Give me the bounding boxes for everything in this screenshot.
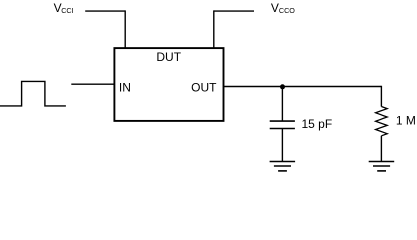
junction node xyxy=(280,84,285,89)
svg-text:CCI: CCI xyxy=(61,6,73,15)
wire VCCO horizontal xyxy=(214,10,254,12)
svg-text:15 pF: 15 pF xyxy=(302,117,333,131)
wire resistor to ground xyxy=(380,136,382,162)
wire OUT xyxy=(224,86,381,88)
svg-text:OUT: OUT xyxy=(191,81,217,95)
wire VCCI horizontal xyxy=(85,10,125,12)
ground (resistor) xyxy=(369,162,395,171)
resistor R1 xyxy=(376,107,388,136)
svg-text:CCO: CCO xyxy=(279,6,295,15)
svg-text:1 M: 1 M xyxy=(396,113,416,127)
wire VCCO vertical to DUT top xyxy=(213,10,215,48)
DUT box U1 xyxy=(114,48,223,121)
wire IN xyxy=(71,83,114,85)
wire capacitor branch xyxy=(281,87,283,121)
svg-text:V: V xyxy=(271,1,279,15)
wire resistor branch xyxy=(380,86,382,107)
wire VCCI vertical to DUT top xyxy=(124,10,126,48)
pulse input waveform xyxy=(0,81,66,106)
capacitor C1 xyxy=(270,121,295,128)
wire capacitor to ground xyxy=(281,129,283,162)
svg-text:IN: IN xyxy=(119,81,131,95)
svg-text:DUT: DUT xyxy=(156,50,181,64)
ground (capacitor) xyxy=(270,162,296,171)
